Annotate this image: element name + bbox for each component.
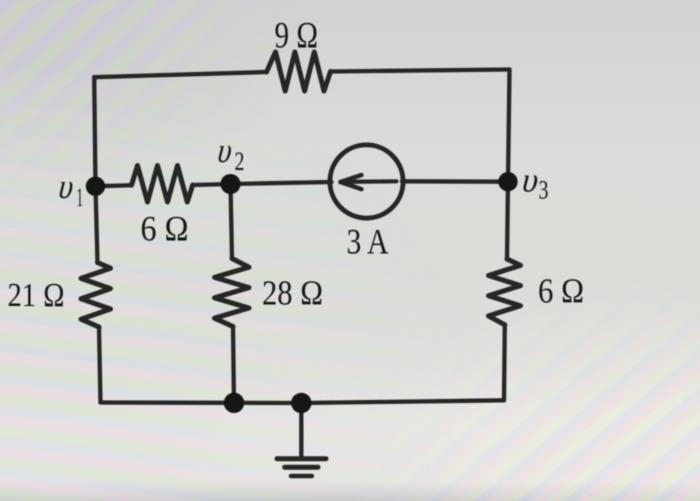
resistor R 6ohm right zigzag bbox=[489, 259, 521, 325]
wire: 6ohm to v2 bbox=[193, 184, 231, 185]
wire: v1 to 6ohm horizontal bbox=[96, 185, 132, 186]
ground stem bbox=[299, 403, 303, 457]
wire: bottom horizontal bbox=[101, 400, 505, 403]
ground bar 1 bbox=[277, 456, 326, 461]
ground bar 2 bbox=[285, 465, 318, 470]
resistor R 9ohm zigzag bbox=[267, 52, 331, 91]
wire: right vertical lower bbox=[502, 325, 507, 401]
wire: left vertical lower bbox=[99, 327, 101, 403]
current source arrowhead tip bbox=[338, 178, 352, 187]
svg-text:28 Ω: 28 Ω bbox=[262, 274, 323, 313]
wire: top-left horizontal segment bbox=[94, 72, 266, 77]
bottom junction dot bbox=[224, 393, 244, 413]
current source arrow shaft bbox=[342, 179, 397, 184]
current source arrow barb upper bbox=[341, 175, 362, 182]
svg-text:2: 2 bbox=[235, 147, 245, 176]
svg-text:6 Ω: 6 Ω bbox=[141, 209, 189, 249]
wire: left vertical upper (corner to v1 to 21ohm) bbox=[94, 77, 97, 263]
label v1 bbox=[55, 166, 79, 205]
svg-text:6 Ω: 6 Ω bbox=[538, 272, 584, 311]
resistor R 6ohm horizontal zigzag bbox=[132, 166, 193, 203]
svg-text:9 Ω: 9 Ω bbox=[275, 16, 319, 57]
svg-text:3 A: 3 A bbox=[347, 222, 389, 262]
svg-text:1: 1 bbox=[77, 183, 84, 212]
wire: v2 to current source bbox=[231, 182, 332, 184]
node v3 dot bbox=[498, 172, 517, 191]
svg-text:3: 3 bbox=[539, 176, 549, 205]
label v3 bbox=[518, 160, 544, 199]
resistor R 21ohm zigzag bbox=[81, 263, 111, 328]
node v1 dot bbox=[86, 177, 105, 196]
svg-text:υ: υ bbox=[55, 166, 79, 205]
wire: v2 down to 28ohm bbox=[231, 184, 233, 259]
wire: current source to v3 bbox=[402, 179, 508, 184]
ground node dot bbox=[291, 393, 311, 413]
node v2 dot bbox=[221, 174, 241, 194]
current source I1 circle bbox=[330, 145, 403, 218]
svg-text:21 Ω: 21 Ω bbox=[8, 277, 65, 314]
wire: 28ohm to bottom bbox=[233, 327, 234, 403]
current source arrow barb lower bbox=[341, 182, 362, 189]
resistor R 28ohm zigzag bbox=[215, 259, 250, 327]
wire: top-right horizontal segment bbox=[331, 70, 510, 72]
label v2 bbox=[214, 130, 238, 169]
wire: right vertical upper (corner to v3 to 6ohm) bbox=[507, 70, 510, 260]
ground bar 3 bbox=[291, 474, 312, 479]
